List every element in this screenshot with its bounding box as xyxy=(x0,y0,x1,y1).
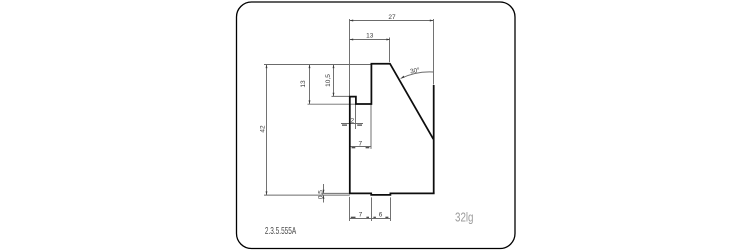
svg-text:13: 13 xyxy=(300,80,307,88)
svg-text:7: 7 xyxy=(358,140,362,147)
svg-text:7: 7 xyxy=(359,212,363,219)
svg-text:2.3.5.555A: 2.3.5.555A xyxy=(265,225,296,237)
svg-text:42: 42 xyxy=(260,125,267,133)
svg-text:13: 13 xyxy=(366,33,374,40)
svg-text:10,5: 10,5 xyxy=(325,74,332,87)
svg-text:2: 2 xyxy=(350,117,354,124)
svg-text:27: 27 xyxy=(388,14,396,21)
svg-text:32lg: 32lg xyxy=(455,210,474,225)
svg-text:0,5: 0,5 xyxy=(318,190,325,199)
svg-text:6: 6 xyxy=(379,212,383,219)
